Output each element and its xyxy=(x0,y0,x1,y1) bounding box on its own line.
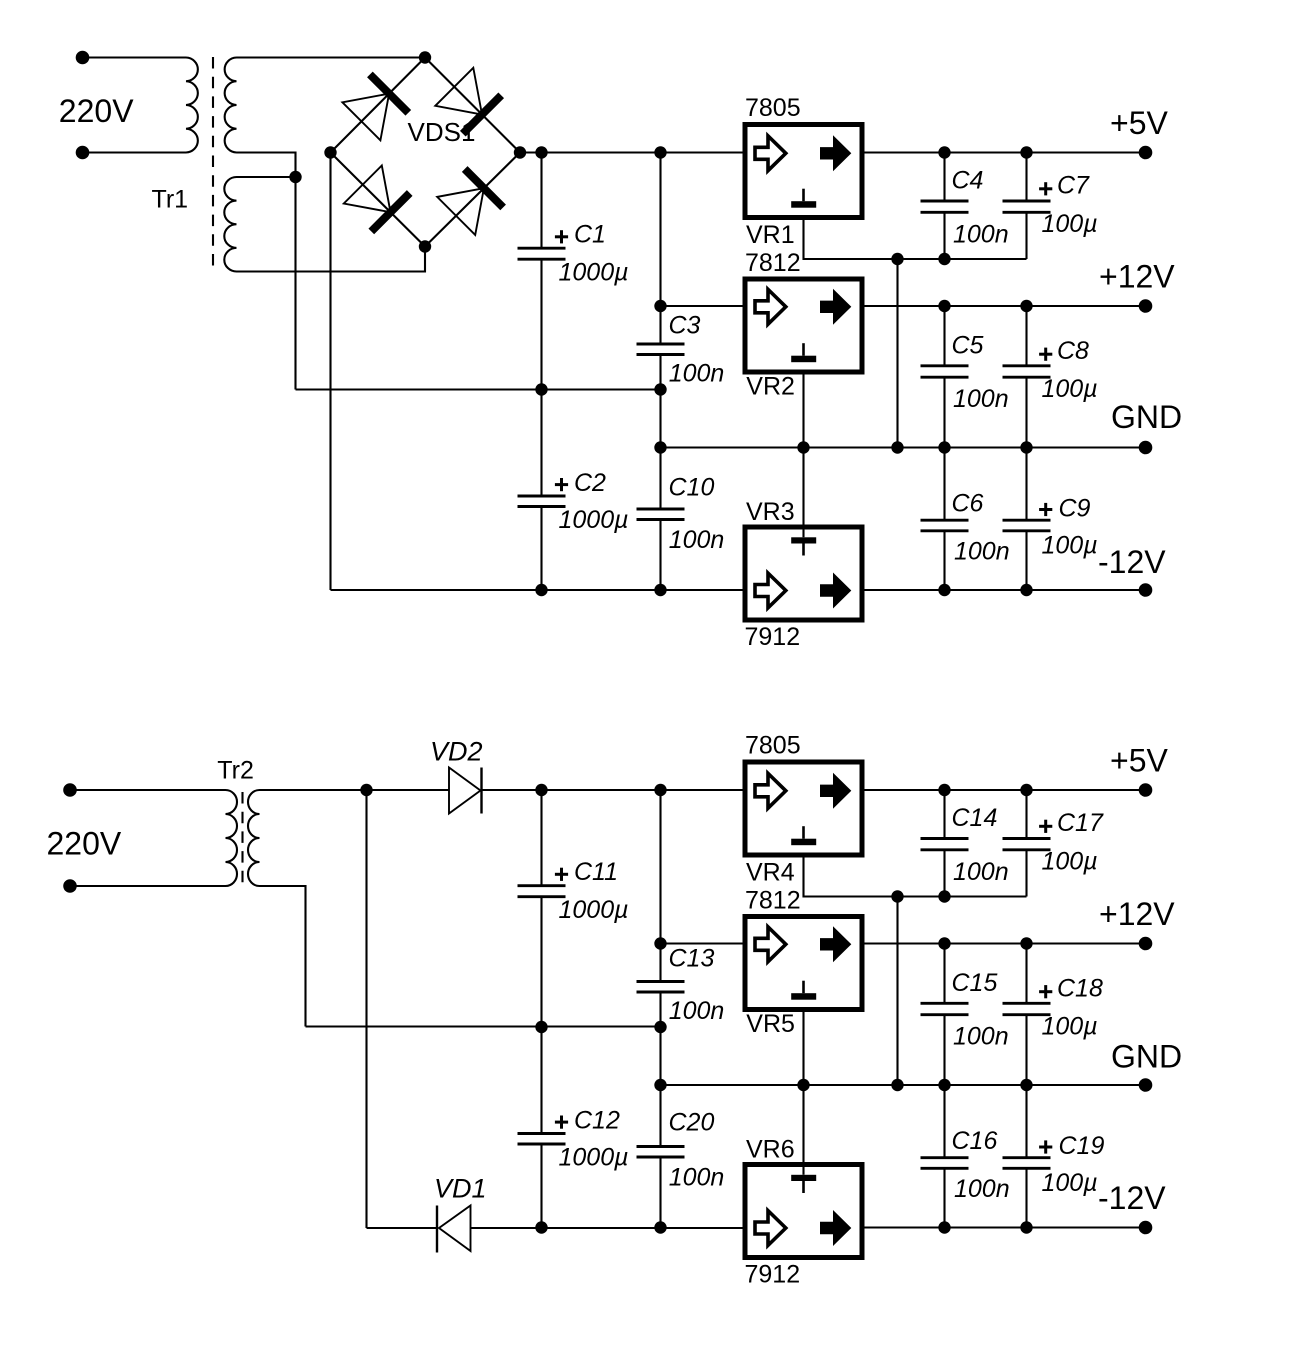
svg-text:VR2: VR2 xyxy=(746,373,795,401)
capacitor C14 xyxy=(943,790,945,839)
svg-text:C5: C5 xyxy=(952,331,984,359)
capacitor C15 xyxy=(943,944,945,1004)
svg-text:+12V: +12V xyxy=(1099,896,1175,932)
svg-text:100n: 100n xyxy=(954,538,1010,566)
capacitor C4 xyxy=(943,153,945,202)
terminal GND (circuit 1) xyxy=(1139,441,1153,455)
VR2 ground symbol xyxy=(802,343,805,356)
svg-text:100n: 100n xyxy=(954,1175,1010,1203)
VR2 input arrow xyxy=(755,289,786,324)
wire +12V output rail (circuit 2) xyxy=(865,942,1146,944)
capacitor C2 xyxy=(540,390,542,497)
svg-text:100n: 100n xyxy=(669,997,725,1025)
node VR1 gnd drop xyxy=(891,253,903,265)
node C9 bottom xyxy=(1020,584,1032,596)
svg-text:Tr1: Tr1 xyxy=(152,186,189,214)
node GND rail start (circuit 1) xyxy=(654,441,666,453)
VR4 ground symbol xyxy=(802,826,805,839)
transformer Tr1 secondary winding 2 xyxy=(224,177,236,272)
wire -12V output rail (circuit 2) xyxy=(865,1226,1146,1228)
svg-text:100µ: 100µ xyxy=(1042,848,1098,876)
node C6 bottom xyxy=(938,584,950,596)
label C17 plus xyxy=(1039,825,1052,828)
VR1 output arrow xyxy=(820,135,851,171)
capacitor C17 xyxy=(1025,790,1027,839)
wire gnd drop to GND rail (circuit 1) xyxy=(896,259,898,448)
node C7 top xyxy=(1020,146,1032,158)
label C7 plus xyxy=(1039,187,1052,190)
node C1/C2 mid xyxy=(535,383,547,395)
node gnd drop on GND rail (circuit 1) xyxy=(891,441,903,453)
svg-text:VR4: VR4 xyxy=(746,859,795,887)
svg-text:C1: C1 xyxy=(574,221,606,249)
wire Tr1 secondary1 top to bridge AC top xyxy=(237,56,426,58)
svg-text:C13: C13 xyxy=(669,945,715,973)
node C8 bottom / C9 top xyxy=(1020,441,1032,453)
svg-text:100µ: 100µ xyxy=(1042,375,1098,403)
svg-text:C20: C20 xyxy=(669,1109,715,1137)
svg-text:100n: 100n xyxy=(669,526,725,554)
node C15 bottom xyxy=(938,1079,950,1091)
svg-text:7805: 7805 xyxy=(745,94,801,122)
terminal 220V top (circuit 2) xyxy=(63,783,77,797)
node C15 top xyxy=(938,937,950,949)
svg-text:100µ: 100µ xyxy=(1042,532,1098,560)
svg-text:100n: 100n xyxy=(669,1164,725,1192)
VR1 ground symbol xyxy=(802,189,805,202)
wire GND rail (circuit 1) xyxy=(661,446,1146,448)
regulator VR1 box xyxy=(745,125,862,218)
node VR5/VR6 gnd on GND rail xyxy=(797,1079,809,1091)
node C14 bottom xyxy=(938,890,950,902)
regulator VR3 box xyxy=(745,527,862,620)
wire bridge left vertex down to raw-minus rail xyxy=(329,153,331,591)
capacitor C8 xyxy=(1025,306,1027,366)
wire gnd drop to GND rail (circuit 2) xyxy=(896,897,898,1086)
node gnd drop on GND rail (circuit 2) xyxy=(891,1079,903,1091)
node VR5 input tap xyxy=(654,937,666,949)
wire VR1 ground pin xyxy=(804,220,1027,259)
svg-text:7912: 7912 xyxy=(745,623,801,651)
wire raw-minus rail to VR3 input xyxy=(331,589,743,591)
regulator VR2 box xyxy=(745,279,862,372)
svg-text:100n: 100n xyxy=(953,221,1009,249)
VR3 ground symbol (inverted) xyxy=(791,537,816,543)
svg-text:C2: C2 xyxy=(574,469,606,497)
node VR4 gnd drop xyxy=(891,890,903,902)
VR4 input arrow xyxy=(755,773,786,808)
node C2 bottom xyxy=(535,584,547,596)
VR2 output arrow xyxy=(820,289,851,325)
svg-text:+5V: +5V xyxy=(1110,743,1168,779)
capacitor C3 xyxy=(659,153,661,345)
wire VR5 input tap xyxy=(661,942,743,944)
node C4 top xyxy=(938,146,950,158)
node C12 bottom xyxy=(535,1221,547,1233)
wire center tap down to 0V mid rail xyxy=(294,177,296,390)
diode VDS1 upper-left xyxy=(342,94,389,141)
capacitor C20 xyxy=(659,1027,661,1147)
svg-text:C9: C9 xyxy=(1059,495,1091,523)
node VR2/VR3 gnd on GND rail xyxy=(797,441,809,453)
wire AC drop to VD1 row xyxy=(365,790,367,1228)
node C13 top xyxy=(654,784,666,796)
wire Tr1 secondary1 bottom to center tap xyxy=(237,153,296,178)
svg-text:VD1: VD1 xyxy=(434,1173,487,1203)
node C18 bottom / C19 top xyxy=(1020,1079,1032,1091)
VR6 output arrow xyxy=(820,1210,851,1246)
label C18 plus xyxy=(1039,990,1052,993)
regulator VR6 box xyxy=(745,1165,862,1258)
node C4 bottom xyxy=(938,253,950,265)
capacitor C19 xyxy=(1025,1085,1027,1158)
svg-text:100n: 100n xyxy=(953,858,1009,886)
wire GND rail (circuit 2) xyxy=(661,1084,1146,1086)
svg-text:C17: C17 xyxy=(1057,809,1104,837)
svg-text:1000µ: 1000µ xyxy=(559,259,629,287)
svg-text:C16: C16 xyxy=(952,1127,998,1155)
label C2 plus xyxy=(555,483,568,486)
svg-text:100n: 100n xyxy=(669,359,725,387)
VR3 input arrow xyxy=(755,573,786,608)
node C18 top xyxy=(1020,937,1032,949)
wire VD2 cathode to VR4 input rail xyxy=(482,789,743,791)
wire VD1 anode to VR6 input rail xyxy=(471,1227,743,1229)
node C11/C12 mid xyxy=(535,1021,547,1033)
svg-text:VR1: VR1 xyxy=(746,221,795,249)
node GND rail start (circuit 2) xyxy=(654,1079,666,1091)
terminal 220V top (circuit 1) xyxy=(76,51,90,65)
svg-text:7805: 7805 xyxy=(745,732,801,760)
node C16 bottom xyxy=(938,1221,950,1233)
svg-text:VR3: VR3 xyxy=(746,498,795,526)
svg-text:C15: C15 xyxy=(952,969,998,997)
svg-text:C8: C8 xyxy=(1057,337,1089,365)
svg-text:C6: C6 xyxy=(952,490,984,518)
terminal 220V bottom (circuit 1) xyxy=(76,146,90,160)
svg-text:VR5: VR5 xyxy=(746,1010,795,1038)
node C1 top xyxy=(535,146,547,158)
svg-text:C3: C3 xyxy=(669,312,701,340)
terminal +12V (circuit 1) xyxy=(1139,299,1153,313)
svg-text:-12V: -12V xyxy=(1098,544,1166,580)
svg-text:1000µ: 1000µ xyxy=(559,506,629,534)
wire bridge VDS1 lower edges xyxy=(331,153,521,247)
VR5 input arrow xyxy=(755,927,786,962)
svg-text:7812: 7812 xyxy=(745,887,801,915)
wire 0V mid rail (circuit 1) xyxy=(296,388,661,390)
svg-text:C14: C14 xyxy=(952,804,998,832)
transformer Tr2 primary winding xyxy=(226,790,238,886)
wire 220V bottom lead to Tr2 primary xyxy=(70,885,226,887)
label C9 plus xyxy=(1039,508,1052,511)
capacitor C1 xyxy=(540,153,542,249)
transformer Tr1 secondary winding 1 xyxy=(225,58,237,153)
VR1 input arrow xyxy=(755,136,786,171)
svg-text:100µ: 100µ xyxy=(1042,210,1098,238)
VR4 output arrow xyxy=(820,773,851,809)
wire Tr1 secondary2 bottom to bridge AC bottom xyxy=(237,247,426,272)
wire VR2 input tap xyxy=(661,305,743,307)
node bridge AC top xyxy=(419,51,431,63)
svg-text:C4: C4 xyxy=(952,167,984,195)
svg-text:1000µ: 1000µ xyxy=(559,896,629,924)
node C11 top xyxy=(535,784,547,796)
node C13/C20 mid xyxy=(654,1021,666,1033)
diode VDS1 upper-right xyxy=(435,68,482,115)
node C19 bottom xyxy=(1020,1221,1032,1233)
wire bridge VDS1 upper edges xyxy=(331,58,521,153)
node C17 top xyxy=(1020,784,1032,796)
svg-text:100µ: 100µ xyxy=(1042,1169,1098,1197)
capacitor C5 xyxy=(943,306,945,366)
wire 220V bottom lead to Tr1 primary xyxy=(83,151,187,153)
svg-text:100n: 100n xyxy=(953,1022,1009,1050)
svg-text:C7: C7 xyxy=(1057,172,1090,200)
capacitor C11 xyxy=(540,790,542,886)
wire VR4 ground pin xyxy=(804,858,1027,897)
capacitor C18 xyxy=(1025,944,1027,1004)
wire 220V top lead to Tr1 primary xyxy=(83,56,187,58)
node bridge minus (left) xyxy=(324,146,336,158)
transformer Tr2 secondary winding xyxy=(248,790,260,886)
VR6 ground symbol (inverted) xyxy=(791,1175,816,1181)
transformer Tr1 core xyxy=(212,57,214,267)
node C5 bottom xyxy=(938,441,950,453)
transformer Tr2 core xyxy=(241,792,243,886)
node bridge plus (right) xyxy=(514,146,526,158)
capacitor C16 xyxy=(943,1085,945,1158)
svg-text:C12: C12 xyxy=(574,1106,620,1134)
wire raw-plus rail bridge to VR1 input xyxy=(520,151,743,153)
svg-text:C19: C19 xyxy=(1059,1132,1105,1160)
wire Tr1 secondary2 top to center tap xyxy=(237,176,296,178)
svg-text:1000µ: 1000µ xyxy=(559,1143,629,1171)
svg-text:220V: 220V xyxy=(59,93,134,129)
terminal +5V (circuit 2) xyxy=(1139,783,1153,797)
terminal +12V (circuit 2) xyxy=(1139,937,1153,951)
regulator VR5 box xyxy=(745,917,862,1010)
capacitor C10 xyxy=(659,390,661,510)
regulator VR4 box xyxy=(745,762,862,855)
label C11 plus xyxy=(555,873,568,876)
wire VR5-VR6 ground pins xyxy=(802,1012,804,1175)
terminal 220V bottom (circuit 2) xyxy=(63,879,77,893)
node C14 top xyxy=(938,784,950,796)
svg-text:C10: C10 xyxy=(669,474,715,502)
VR3 output arrow xyxy=(820,573,851,609)
node C20 bottom xyxy=(654,1221,666,1233)
wire VR2-VR3 ground pins xyxy=(802,375,804,538)
wire -12V output rail (circuit 1) xyxy=(865,589,1146,591)
wire Tr2 secondary bottom to 0V mid rail xyxy=(260,886,306,1027)
svg-text:7912: 7912 xyxy=(745,1261,801,1289)
node C3 top xyxy=(654,146,666,158)
svg-text:100µ: 100µ xyxy=(1042,1012,1098,1040)
svg-text:+5V: +5V xyxy=(1110,105,1168,141)
terminal -12V (circuit 2) xyxy=(1139,1221,1153,1235)
diode VD1 xyxy=(436,1206,438,1253)
label C8 plus xyxy=(1039,353,1052,356)
diode VD2 xyxy=(449,768,481,814)
capacitor C9 xyxy=(1025,448,1027,521)
svg-text:C18: C18 xyxy=(1057,975,1103,1003)
VR6 input arrow xyxy=(755,1211,786,1246)
node C8 top xyxy=(1020,300,1032,312)
svg-text:-12V: -12V xyxy=(1098,1180,1166,1216)
diode VDS1 lower-left xyxy=(344,166,391,213)
VR5 ground symbol xyxy=(802,981,805,994)
terminal GND (circuit 2) xyxy=(1139,1078,1153,1092)
node C3/C10 mid xyxy=(654,383,666,395)
capacitor C6 xyxy=(943,448,945,521)
diode VDS1 lower-right xyxy=(437,188,484,235)
terminal -12V (circuit 1) xyxy=(1139,583,1153,597)
wire +12V output rail (circuit 1) xyxy=(865,305,1146,307)
wire 0V mid rail (circuit 2) xyxy=(306,1025,661,1027)
node bridge AC bottom xyxy=(419,240,431,252)
svg-text:VR6: VR6 xyxy=(746,1136,795,1164)
capacitor C7 xyxy=(1025,153,1027,202)
svg-text:100n: 100n xyxy=(953,385,1009,413)
wire VD1 row from AC drop xyxy=(367,1227,438,1229)
svg-text:+12V: +12V xyxy=(1099,259,1175,295)
svg-text:GND: GND xyxy=(1111,1039,1182,1075)
svg-text:Tr2: Tr2 xyxy=(217,757,254,785)
VR5 output arrow xyxy=(820,926,851,962)
label C19 plus xyxy=(1039,1146,1052,1149)
node secondary top junction xyxy=(360,784,372,796)
wire Tr2 secondary top to diode VD2 xyxy=(260,789,450,791)
node VR2 input tap xyxy=(654,300,666,312)
wire +5V output rail (circuit 2) xyxy=(865,789,1146,791)
wire +5V output rail (circuit 1) xyxy=(865,151,1146,153)
svg-text:GND: GND xyxy=(1111,399,1182,435)
node center tap xyxy=(289,171,301,183)
node C5 top xyxy=(938,300,950,312)
svg-text:220V: 220V xyxy=(47,826,122,862)
transformer Tr1 primary winding xyxy=(186,58,198,153)
svg-text:7812: 7812 xyxy=(745,249,801,277)
label C1 plus xyxy=(555,235,568,238)
terminal +5V (circuit 1) xyxy=(1139,146,1153,160)
capacitor C12 xyxy=(540,1027,542,1134)
svg-text:C11: C11 xyxy=(574,858,618,886)
wire 220V top lead to Tr2 primary xyxy=(70,789,226,791)
node C10 bottom xyxy=(654,584,666,596)
svg-text:VD2: VD2 xyxy=(430,737,483,767)
capacitor C13 xyxy=(659,790,661,982)
label C12 plus xyxy=(555,1121,568,1124)
